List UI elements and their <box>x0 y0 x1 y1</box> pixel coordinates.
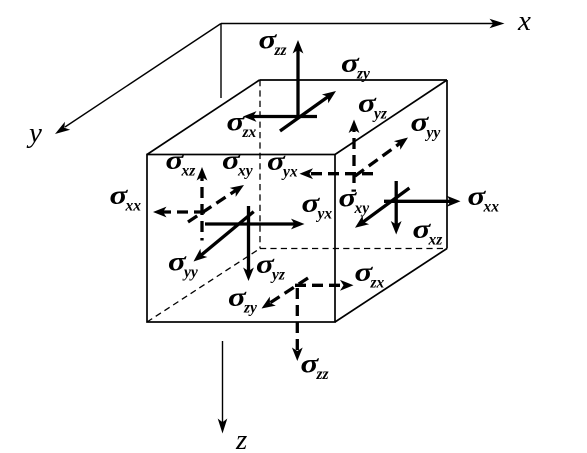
svg-text:zx: zx <box>242 124 257 141</box>
sigma_yy back label <box>411 109 441 142</box>
svg-text:yx: yx <box>316 206 333 223</box>
cube top back edge <box>260 79 448 81</box>
tick above sigma_xy right <box>352 190 357 192</box>
sigma_zy bottom label <box>228 284 257 317</box>
x-axis <box>221 19 505 29</box>
sigma_zx top arrow <box>243 111 317 122</box>
svg-text:zy: zy <box>356 66 370 83</box>
sigma_xy right arrow <box>355 188 409 228</box>
svg-text:zz: zz <box>316 366 329 383</box>
sigma_xx left arrow <box>153 207 205 218</box>
sigma_xy left arrow <box>188 185 244 222</box>
sigma_xx right arrow <box>384 196 461 207</box>
svg-text:zx: zx <box>370 275 385 292</box>
axis corner vertical wire <box>220 24 222 99</box>
sigma_zz top label <box>259 26 287 59</box>
sigma_xx right label <box>468 183 500 216</box>
sigma_yy front arrow <box>194 212 254 262</box>
svg-text:yx: yx <box>281 164 298 181</box>
svg-text:yy: yy <box>182 264 198 281</box>
sigma_yz front label <box>256 251 285 284</box>
svg-text:xx: xx <box>483 199 500 216</box>
cube top-left edge <box>147 80 260 155</box>
sigma_xz right arrow <box>391 181 402 235</box>
sigma_xz right label <box>413 216 443 249</box>
sigma_zx bottom arrow <box>295 280 354 291</box>
sigma_zy top label <box>341 50 370 83</box>
sigma_zz bottom arrow <box>292 288 303 361</box>
svg-text:xx: xx <box>125 198 142 215</box>
sigma_zx top label <box>227 108 257 141</box>
sigma_xy left label <box>222 147 253 180</box>
sigma_yx back label <box>267 148 298 181</box>
sigma_zy top arrow <box>280 91 336 131</box>
svg-text:x: x <box>517 5 531 37</box>
sigma_yy front label <box>168 248 198 281</box>
sigma_yx back arrow <box>300 168 374 179</box>
sigma_yz front arrow <box>243 206 254 281</box>
sigma_zy bottom arrow <box>262 278 309 309</box>
sigma_yx front arrow <box>205 219 305 230</box>
cube front face <box>147 155 335 323</box>
sigma_xx left label <box>110 182 142 215</box>
svg-text:zz: zz <box>274 42 287 59</box>
sigma_yz back arrow <box>349 120 360 184</box>
sigma_zz top arrow <box>293 40 304 117</box>
cube right back vertical edge <box>446 80 448 249</box>
cube top-right edge <box>335 80 447 155</box>
svg-text:xz: xz <box>428 232 443 249</box>
cube hidden back-left vertical edge <box>259 80 261 249</box>
z-axis <box>218 341 228 434</box>
cube hidden bottom-left edge <box>147 249 260 323</box>
sigma_xz left label <box>166 147 196 180</box>
sigma_zx bottom label <box>355 259 385 292</box>
sigma_xz left arrow <box>197 167 208 241</box>
svg-text:xy: xy <box>354 200 370 217</box>
sigma_yy back arrow <box>355 138 408 177</box>
sigma_zz bottom label <box>301 350 329 383</box>
svg-text:xz: xz <box>181 163 196 180</box>
svg-text:z: z <box>235 424 247 453</box>
svg-text:zy: zy <box>243 300 257 317</box>
y-axis <box>55 24 221 135</box>
svg-text:yz: yz <box>372 106 387 123</box>
svg-text:y: y <box>26 117 42 149</box>
svg-text:xy: xy <box>237 163 253 180</box>
svg-text:yy: yy <box>425 125 441 142</box>
cube bottom-right edge <box>335 249 447 323</box>
sigma_yz back label <box>358 90 387 123</box>
cube hidden back bottom edge <box>260 248 447 250</box>
sigma_xy right label <box>339 184 370 217</box>
sigma_yx front label <box>302 190 333 223</box>
svg-text:yz: yz <box>270 267 285 284</box>
